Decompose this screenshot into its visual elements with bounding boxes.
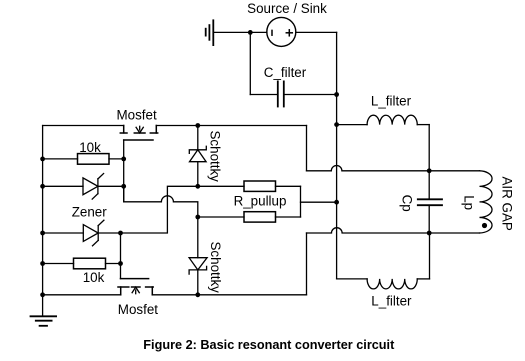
svg-text:Cp: Cp [399, 195, 414, 212]
svg-text:Figure 2: Basic resonant conve: Figure 2: Basic resonant converter circu… [143, 338, 395, 352]
svg-text:Mosfet: Mosfet [117, 107, 157, 122]
svg-text:Source / Sink: Source / Sink [247, 1, 327, 16]
svg-text:Zener: Zener [72, 205, 108, 220]
svg-text:Schottky: Schottky [207, 131, 222, 183]
svg-text:R_pullup: R_pullup [234, 194, 287, 209]
svg-text:Mosfet: Mosfet [118, 302, 158, 317]
svg-text:10k: 10k [83, 270, 105, 285]
svg-text:10k: 10k [79, 140, 101, 155]
svg-text:Lp: Lp [461, 195, 476, 210]
svg-text:L_filter: L_filter [371, 294, 412, 309]
svg-text:C_filter: C_filter [264, 65, 307, 80]
svg-text:L_filter: L_filter [371, 94, 412, 109]
svg-text:Schottky: Schottky [208, 242, 223, 294]
svg-text:AIR GAP: AIR GAP [500, 177, 515, 231]
